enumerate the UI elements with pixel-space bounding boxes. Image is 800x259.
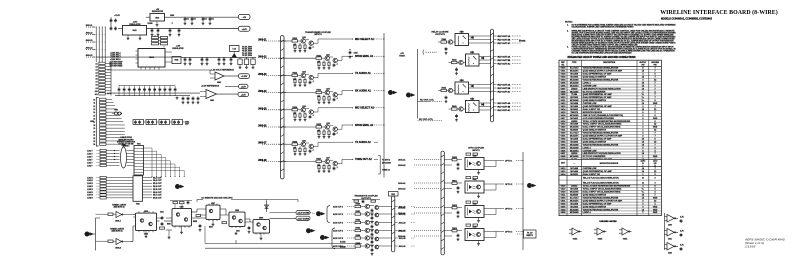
svg-text:QUAD ANALOG SWITCH: QUAD ANALOG SWITCH: [583, 99, 607, 102]
transistor Q611: [459, 60, 463, 64]
svg-text:TO 1ST J7600: TO 1ST J7600: [242, 49, 252, 51]
net flag H: [306, 228, 311, 233]
svg-text:WL8 OUT: WL8 OUT: [153, 198, 162, 200]
unused gates section: [569, 220, 632, 241]
net flag D off-page: [527, 183, 532, 188]
IC U609 decode block E: [245, 218, 270, 240]
svg-text:RLY OUT 1C: RLY OUT 1C: [498, 43, 511, 45]
svg-text:INPUTS: INPUTS: [472, 150, 480, 152]
svg-text:MC3403: MC3403: [570, 140, 578, 143]
transistor Q610: [448, 40, 452, 44]
svg-text:GND: GND: [653, 206, 658, 208]
value labels top left: [114, 15, 174, 25]
IC U608 decode block D: [220, 210, 245, 244]
transistor output stage 2: [333, 211, 415, 223]
svg-text:10: 10: [93, 99, 95, 101]
decode bottom wires: [205, 226, 362, 248]
svg-text:QUAD ANALOG SWITCH: QUAD ANALOG SWITCH: [583, 76, 607, 79]
bias row above output stages: [352, 200, 380, 204]
svg-text:RX AUDIO A1: RX AUDIO A1: [355, 89, 372, 92]
svg-text:U631: U631: [473, 179, 477, 181]
svg-text:VOICE MUTE/CROSS SIGNAL/FILTER: VOICE MUTE/CROSS SIGNAL/FILTER: [583, 132, 619, 135]
svg-text:DUAL 3 INPUT OR (CLASSIC/ROUTI: DUAL 3 INPUT OR (CLASSIC/ROUTING): [583, 126, 621, 129]
svg-text:TML-1 B FLAG (CLASSIC/CHAN/LAT: TML-1 B FLAG (CLASSIC/CHAN/LATCH): [583, 177, 619, 180]
svg-text:-12.5V DC/RM: -12.5V DC/RM: [297, 218, 309, 220]
svg-text:R620: R620: [292, 38, 297, 40]
relay K603 stage: [449, 97, 522, 112]
svg-text:MC1488: MC1488: [570, 167, 578, 170]
svg-text:RLY OUT 4 CTL: RLY OUT 4 CTL: [419, 118, 434, 121]
IC U605 decode block A: [133, 211, 157, 238]
svg-text:.1: .1: [312, 81, 314, 83]
svg-text:LN5 T: LN5 T: [87, 162, 93, 164]
svg-text:DC TO DC CONVERTER: DC TO DC CONVERTER: [583, 91, 606, 93]
svg-text:MC14051: MC14051: [570, 90, 580, 93]
IC U607 decode block C: [197, 203, 220, 226]
net flag +2.5V: [201, 84, 248, 88]
svg-text:RLY OUT 2B: RLY OUT 2B: [498, 60, 511, 62]
resistor network right: [238, 57, 255, 69]
svg-text:MC14071: MC14071: [570, 199, 580, 202]
svg-text:TO SHT 2: TO SHT 2: [382, 159, 390, 161]
capacitors after +9.6V regulator: [151, 28, 181, 36]
svg-text:AUX OUT 1: AUX OUT 1: [333, 205, 343, 208]
svg-text:U609: U609: [259, 218, 263, 220]
svg-text:LN3 T: LN3 T: [87, 156, 93, 158]
svg-text:J600-12: J600-12: [86, 33, 93, 35]
svg-text:J600-11: J600-11: [86, 25, 93, 27]
svg-text:MC14066: MC14066: [570, 126, 580, 129]
svg-text:P601: P601: [391, 194, 395, 196]
svg-text:REGULATOR: REGULATOR: [152, 10, 164, 13]
svg-text:CUSTOM LOW: CUSTOM LOW: [583, 103, 597, 105]
svg-text:18: 18: [93, 125, 95, 127]
bias components above U606: [170, 201, 192, 209]
capacitor cluster below references: [182, 97, 200, 104]
transistor Q600: [301, 39, 305, 43]
svg-text:TONE OUT A2: TONE OUT A2: [355, 158, 372, 161]
svg-text:GND: GND: [653, 197, 658, 199]
capacitor C630: [445, 47, 448, 54]
svg-text:LN2 T: LN2 T: [87, 153, 93, 155]
svg-text:R627: R627: [316, 159, 321, 161]
interconnect wires decode section: [96, 209, 254, 242]
svg-text:C612: C612: [160, 212, 164, 214]
svg-text:AUX OUT 2: AUX OUT 2: [333, 213, 343, 216]
svg-text:+13.8V: +13.8V: [114, 15, 120, 17]
transistor Q605: [309, 75, 313, 79]
svg-text:QUAD DIFFERENTIAL OP AMP: QUAD DIFFERENTIAL OP AMP: [583, 93, 613, 96]
decode output wires: [270, 211, 311, 221]
net flag +2.5VF: [238, 92, 249, 96]
coupling components between blocks: [157, 216, 173, 229]
svg-text:WIRELINE INTERFACE BOARD (8-WI: WIRELINE INTERFACE BOARD (8-WIRE): [660, 9, 778, 16]
svg-text:TX AUDIO A2: TX AUDIO A2: [355, 141, 371, 144]
relay section input labels: [399, 40, 526, 121]
svg-text:R683: R683: [355, 228, 360, 230]
svg-text:RLY OUT 4A: RLY OUT 4A: [498, 102, 511, 105]
input cable bus: [279, 36, 287, 180]
svg-text:LN7 R: LN7 R: [87, 195, 93, 197]
svg-text:MC1458: MC1458: [570, 73, 578, 76]
svg-text:MC1489: MC1489: [570, 170, 578, 173]
svg-text:C615: C615: [354, 53, 358, 55]
resistor box at U600 right: [172, 57, 181, 64]
wire J600 input 4: [86, 49, 96, 51]
svg-text:VOICE MUTE/CROSS SIGNAL/FILTER: VOICE MUTE/CROSS SIGNAL/FILTER: [583, 143, 619, 146]
svg-text:MC3403: MC3403: [570, 76, 578, 79]
svg-text:DESCRIPTION: DESCRIPTION: [603, 62, 616, 64]
svg-text:+9.6V: +9.6V: [242, 29, 248, 31]
transistor Q612: [301, 142, 305, 146]
svg-text:R682: R682: [355, 220, 360, 222]
unused gate at x=622: [622, 228, 629, 235]
svg-text:22: 22: [93, 138, 95, 140]
svg-text:RLY OUT 2A: RLY OUT 2A: [498, 55, 511, 58]
unused gate at x=597: [597, 228, 604, 235]
svg-text:QUAD ANALOG SWITCH: QUAD ANALOG SWITCH: [583, 129, 607, 132]
svg-text:AC-VOLT: AC-VOLT: [570, 132, 580, 135]
svg-text:OPTO 1: OPTO 1: [505, 160, 513, 162]
svg-text:17: 17: [93, 122, 95, 124]
svg-text:U632: U632: [473, 204, 477, 206]
bracket upper group: [327, 206, 330, 223]
svg-text:4W AUDIO: 4W AUDIO: [382, 162, 392, 165]
left bracket rail relay section: [417, 49, 419, 119]
drawing number block: [744, 238, 785, 249]
svg-text:ONE / B FLOP (CHANNEL/LOGIC/SW: ONE / B FLOP (CHANNEL/LOGIC/SWITCH): [583, 114, 624, 117]
svg-text:U605: U605: [144, 211, 148, 213]
svg-text:+2.5V REFERENCE: +2.5V REFERENCE: [201, 85, 220, 87]
table tall rows flag entries: [559, 175, 661, 185]
svg-text:.1: .1: [336, 98, 338, 100]
transistor Q613: [459, 107, 463, 111]
svg-text:11: 11: [94, 103, 96, 105]
svg-text:GND: GND: [653, 209, 658, 211]
test point TP600: [230, 46, 252, 58]
svg-text:TL084: TL084: [571, 93, 578, 96]
svg-text:MC1488: MC1488: [570, 102, 578, 105]
net flag +5V: [239, 14, 251, 19]
transformer input stage 8: [258, 158, 378, 173]
svg-text:LN4 R: LN4 R: [87, 185, 93, 188]
svg-text:MODELS CC34893A2, CC34893B2, C: MODELS CC34893A2, CC34893B2, CC37524A3: [661, 17, 713, 20]
svg-text:E600: E600: [122, 145, 126, 147]
svg-text:QUAD ANALOG SWITCH: QUAD ANALOG SWITCH: [583, 194, 607, 197]
transformer input stage 1: [258, 37, 385, 52]
svg-text:LN5 R: LN5 R: [87, 189, 93, 191]
svg-text:MC14071: MC14071: [570, 135, 580, 138]
net flag E to sheet 2: [175, 184, 180, 189]
svg-text:J600-43: J600-43: [398, 182, 406, 185]
junction dots strip C: [114, 150, 115, 160]
svg-text:.1: .1: [312, 115, 314, 117]
svg-text:AUX OUT 6: AUX OUT 6: [333, 245, 343, 248]
svg-text:J601-31: J601-31: [399, 206, 406, 208]
transistor Q606: [325, 90, 329, 94]
relay K600 stage: [438, 30, 521, 45]
op-amp A3: [667, 243, 674, 251]
spare op-amp column: [665, 213, 685, 255]
svg-text:U606: U606: [180, 206, 184, 208]
svg-text:GND: GND: [653, 118, 658, 120]
svg-text:QUAD SINGLE SUPPLY 14 PORT OP: QUAD SINGLE SUPPLY 14 PORT OP AMP: [583, 135, 623, 138]
svg-text:C6: C6: [212, 19, 214, 21]
svg-text:U641: U641: [132, 29, 136, 32]
svg-text:DUAL DIFFERENTIAL OP AMP: DUAL DIFFERENTIAL OP AMP: [583, 137, 612, 140]
svg-text:VOICE MUTE/CROSS SIGNAL/FILTER: VOICE MUTE/CROSS SIGNAL/FILTER: [583, 208, 619, 211]
relay K601 stage: [449, 51, 522, 66]
connector box above bus: [389, 192, 399, 197]
svg-text:J600-13: J600-13: [86, 40, 93, 42]
transistor Q604: [301, 73, 305, 77]
svg-text:MC14040: MC14040: [570, 211, 580, 214]
transformer array T601: [134, 143, 144, 175]
svg-text:AUX OUT 4: AUX OUT 4: [333, 229, 344, 232]
svg-text:TONE/DC 2 MUTE: TONE/DC 2 MUTE: [110, 229, 125, 231]
transformer input stage 5: [258, 105, 385, 121]
transistor Q601: [309, 41, 313, 45]
svg-text:MIC SELECT A2: MIC SELECT A2: [355, 107, 375, 110]
svg-text:INTEGRATED CIRCUIT POWER AND G: INTEGRATED CIRCUIT POWER AND GROUND CONN…: [567, 56, 635, 59]
svg-text:.1: .1: [312, 150, 314, 152]
svg-text:20: 20: [93, 131, 95, 133]
notes block: [565, 21, 676, 54]
svg-text:RLY OUT 3C: RLY OUT 3C: [498, 91, 511, 93]
svg-text:WL2 OUT: WL2 OUT: [153, 180, 162, 182]
opto input cable bus: [441, 151, 444, 255]
svg-text:TOTAL 3 STATE NONINVERTING BUF: TOTAL 3 STATE NONINVERTING BUFFER/DRIVER: [583, 120, 631, 123]
svg-text:RLY OUT 4B: RLY OUT 4B: [498, 105, 511, 108]
svg-text:+1.35V: +1.35V: [241, 76, 248, 78]
svg-text:LINE DROPOUT VOLTAGE REGULATOR: LINE DROPOUT VOLTAGE REGULATOR: [583, 87, 622, 90]
svg-text:NOTES:: NOTES:: [565, 21, 573, 23]
svg-text:12: 12: [93, 106, 95, 108]
svg-text:MC14051: MC14051: [570, 155, 580, 158]
bracket to sheet 2 rows 7-8: [378, 156, 392, 175]
svg-text:TO 1ST J7600: TO 1ST J7600: [242, 47, 252, 49]
transistor output stage 5: [333, 234, 415, 247]
svg-text:RLY OUT 2C: RLY OUT 2C: [498, 63, 511, 65]
svg-text:C6: C6: [194, 19, 196, 21]
svg-text:U617: U617: [561, 163, 565, 165]
vertical bus lines from connector: [95, 27, 97, 62]
svg-text:.1: .1: [336, 167, 338, 169]
transformer input stage 6: [258, 123, 385, 138]
svg-text:QUAD ANALOG SWITCH: QUAD ANALOG SWITCH: [583, 140, 607, 143]
svg-text:R661: R661: [452, 180, 457, 182]
svg-text:R655: R655: [193, 221, 197, 223]
svg-text:16: 16: [93, 119, 95, 121]
svg-text:+2.5V: +2.5V: [241, 86, 247, 88]
svg-text:LN4 T: LN4 T: [87, 158, 93, 161]
svg-text:R623: R623: [316, 90, 321, 92]
svg-text:19: 19: [93, 128, 95, 130]
diode CR620: [471, 36, 473, 38]
regulator U641 +9.6V: [118, 22, 238, 40]
svg-text:OPTO 4: OPTO 4: [505, 230, 513, 233]
svg-text:NO.: NO.: [561, 64, 565, 66]
regulator label -9.6V: [172, 46, 184, 50]
svg-text:AC-VOLT: AC-VOLT: [570, 67, 580, 70]
net flag F input: [85, 232, 90, 237]
svg-text:LN6 T: LN6 T: [87, 165, 93, 167]
svg-text:MC14040: MC14040: [570, 146, 580, 149]
relay output bus: [490, 29, 493, 122]
svg-text:MC14066: MC14066: [570, 78, 580, 81]
svg-text:+13.5V J601-2: +13.5V J601-2: [110, 53, 121, 55]
svg-text:WL1 OUT: WL1 OUT: [153, 177, 162, 179]
svg-text:LN1 T: LN1 T: [87, 150, 93, 152]
svg-text:R652: R652: [209, 227, 213, 229]
svg-text:MC6821: MC6821: [570, 109, 578, 111]
svg-text:LM555: LM555: [571, 186, 578, 188]
svg-text:MC14049: MC14049: [570, 99, 580, 102]
svg-text:MC1458: MC1458: [570, 137, 578, 140]
svg-text:J600-15: J600-15: [86, 55, 93, 57]
svg-text:TO +5V: TO +5V: [527, 232, 533, 234]
svg-text:MLM339: MLM339: [570, 130, 579, 132]
section label transistor coupled outputs: [354, 194, 378, 199]
net flag G: [316, 211, 321, 216]
svg-text:R685: R685: [355, 243, 360, 245]
svg-text:MC14013: MC14013: [570, 149, 580, 152]
svg-text:23: 23: [93, 141, 95, 143]
svg-text:AUX OUT 5: AUX OUT 5: [333, 237, 343, 240]
op-amp U643 +2.5V reference: [107, 90, 238, 103]
output bus right: [392, 196, 395, 252]
svg-text:R641: R641: [452, 59, 457, 62]
svg-text:CUSTOM LOW: CUSTOM LOW: [583, 168, 597, 170]
svg-text:TONE A2: TONE A2: [382, 168, 390, 171]
svg-text:5 14: 5 14: [232, 48, 236, 51]
svg-text:13: 13: [93, 109, 95, 111]
transistor Q614: [325, 159, 329, 163]
svg-text:TO 1ST J7600: TO 1ST J7600: [242, 51, 252, 53]
optocoupler U631 stage: [398, 177, 524, 198]
svg-text:R680: R680: [355, 204, 360, 206]
svg-text:RLY OUT 1A: RLY OUT 1A: [498, 35, 511, 38]
svg-text:LN1 R: LN1 R: [87, 177, 93, 179]
section label opto coupler inputs: [468, 148, 485, 152]
svg-text:DUAL 3 INPUT OR (CLASSIC/ROUTI: DUAL 3 INPUT OR (CLASSIC/ROUTING): [583, 191, 621, 194]
fan-out wires to decode section: [144, 148, 185, 177]
optocoupler U633 stage: [398, 224, 524, 245]
svg-text:LOGIC 4: LOGIC 4: [583, 81, 592, 84]
IC U606 decode block B: [172, 206, 197, 233]
section label relay closure outputs: [432, 30, 450, 35]
svg-text:GND: GND: [653, 156, 658, 158]
connector strip J600 lower with bracket: [90, 98, 125, 147]
line label stack upper: [87, 150, 100, 167]
svg-text:RLY OUT 1B: RLY OUT 1B: [498, 39, 511, 41]
svg-text:LOGIC 4: LOGIC 4: [583, 146, 592, 149]
svg-text:MC14040: MC14040: [570, 81, 580, 84]
svg-text:J601-34: J601-34: [399, 229, 407, 232]
transistor output stage 3: [333, 220, 415, 232]
svg-text:MC3403: MC3403: [570, 205, 578, 208]
regulator U640 +5V: [146, 9, 238, 26]
svg-text:OUTPUTS: OUTPUTS: [435, 34, 445, 36]
svg-text:DUAL DIFFERENTIAL OP AMP: DUAL DIFFERENTIAL OP AMP: [583, 73, 612, 76]
svg-text:RLY OUT 3 CTL: RLY OUT 3 CTL: [420, 99, 435, 101]
svg-text:R640: R640: [441, 38, 446, 41]
capacitors at +9.6V input: [110, 17, 117, 30]
svg-text:GND: GND: [653, 212, 658, 214]
transformer T600 symbol: [112, 110, 122, 116]
optocoupler U630 stage: [398, 153, 524, 174]
svg-text:MC14066: MC14066: [570, 208, 580, 211]
svg-text:WL3 OUT: WL3 OUT: [153, 183, 162, 185]
zener diode stack: [265, 200, 269, 213]
wire to flag G: [310, 212, 315, 215]
svg-text:R622: R622: [292, 73, 297, 75]
svg-text:MIC SELECT A1: MIC SELECT A1: [355, 38, 375, 41]
gate G600 with input network: [96, 205, 134, 223]
svg-text:R681: R681: [355, 211, 360, 213]
connector strip J600 upper: [95, 62, 111, 96]
svg-text:RLY OUT 3A: RLY OUT 3A: [498, 83, 511, 86]
unused gate at x=572: [572, 228, 579, 235]
transistor Q608: [301, 108, 305, 112]
svg-text:MC1489: MC1489: [570, 105, 578, 108]
svg-text:J600-41: J600-41: [398, 158, 406, 161]
relay K602 stage: [438, 79, 521, 94]
transistor Q613: [309, 144, 313, 148]
svg-text:QUAD ANALOG SWITCH: QUAD ANALOG SWITCH: [583, 205, 607, 208]
svg-text:.1: .1: [171, 22, 172, 24]
svg-text:MLM339: MLM339: [570, 195, 579, 197]
svg-text:QUAD DIFFERENTIAL OP AMP: QUAD DIFFERENTIAL OP AMP: [583, 105, 613, 108]
table: integrated circuit power and ground connections: [559, 56, 661, 216]
svg-text:C615: C615: [236, 231, 240, 233]
svg-text:TONE/DC 1 MUTE: TONE/DC 1 MUTE: [112, 205, 127, 207]
svg-text:WL7 OUT: WL7 OUT: [153, 195, 162, 197]
svg-text:QUAD SINGLE SUPPLY 14 PORT OP: QUAD SINGLE SUPPLY 14 PORT OP AMP: [583, 199, 623, 202]
svg-text:U630: U630: [473, 156, 477, 158]
capacitor C615 on row 2 output: [349, 49, 358, 58]
transistor Q615: [333, 161, 337, 165]
svg-text:J601-33: J601-33: [399, 222, 406, 224]
svg-text:TX AUDIO A1: TX AUDIO A1: [355, 72, 371, 75]
svg-text:CR600: CR600: [148, 23, 153, 25]
svg-text:WL6 OUT: WL6 OUT: [153, 192, 162, 194]
svg-text:.1: .1: [336, 132, 338, 134]
gate G601 with input network: [96, 229, 131, 250]
svg-text:LM339: LM339: [571, 88, 578, 90]
svg-text:MC1458: MC1458: [570, 202, 578, 205]
svg-text:TOTAL 3 INPUT OR (CLASSIC/ROUT: TOTAL 3 INPUT OR (CLASSIC/ROUTING): [583, 188, 622, 191]
svg-text:MC14066: MC14066: [570, 191, 580, 194]
svg-text:MICROPROCESSOR: MICROPROCESSOR: [600, 163, 619, 165]
svg-text:OPTO 2: OPTO 2: [505, 184, 513, 186]
transformer array T602: [133, 176, 162, 206]
ferrite bead array E600: [121, 145, 135, 168]
svg-text:+2.5V: +2.5V: [241, 94, 247, 96]
svg-text:GND: GND: [653, 127, 658, 129]
svg-text:REGULATOR: REGULATOR: [172, 47, 184, 50]
wire J600 input 2: [86, 34, 96, 36]
svg-text:TML-2 B FLAG (CLASSIC/CHAN/LAT: TML-2 B FLAG (CLASSIC/CHAN/LATCH): [583, 181, 619, 184]
transistor output stage 6: [333, 243, 415, 255]
svg-text:DC REMOTE DECODE CIRCUITS: DC REMOTE DECODE CIRCUITS: [201, 197, 233, 199]
svg-text:(SEE NOTE 3): (SEE NOTE 3): [112, 231, 123, 233]
svg-text:MC3303: MC3303: [570, 97, 578, 99]
svg-text:J600-44: J600-44: [398, 187, 406, 190]
text note: cable from wireline board: [117, 136, 136, 147]
svg-text:8,21: 8,21: [654, 163, 657, 165]
svg-text:LM555: LM555: [571, 121, 578, 123]
